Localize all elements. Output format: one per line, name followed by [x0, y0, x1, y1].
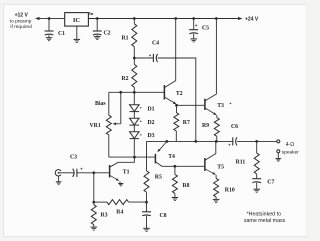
arrow +24V supply: [233, 18, 238, 20]
svg-text:R11: R11: [236, 159, 246, 165]
svg-text:C6: C6: [231, 124, 238, 130]
wire C1 node to IC: [49, 18, 65, 20]
node R1-R2-C4: [133, 57, 136, 60]
svg-text:R8: R8: [183, 183, 190, 189]
resistor R9: [216, 115, 218, 117]
svg-text:D3: D3: [148, 133, 155, 139]
svg-text:to preamp: to preamp: [10, 18, 32, 24]
node R11 tap: [255, 140, 258, 143]
transistor T1: [109, 165, 111, 178]
wire C3 to T1 base: [77, 172, 110, 174]
node T4 emitter tap: [166, 140, 169, 143]
wire +24V rail: [88, 18, 237, 20]
ground T1 emitter: [119, 181, 121, 183]
svg-text:D2: D2: [148, 120, 155, 126]
svg-text:C2: C2: [104, 30, 111, 36]
svg-text:C4: C4: [152, 40, 159, 46]
transistor T4: [154, 154, 156, 164]
ground under R3: [91, 226, 98, 228]
wire bias chain to T4 base: [109, 156, 156, 158]
capacitor C7: [252, 178, 261, 180]
svg-text:VR1: VR1: [90, 123, 101, 129]
svg-text:Bias: Bias: [95, 101, 106, 107]
resistor R5 feedback: [146, 141, 148, 170]
wire output rail: [147, 140, 233, 142]
ground under C8: [143, 227, 150, 229]
wire arrow to C1 node: [41, 18, 50, 20]
wire C4 feed: [134, 57, 153, 59]
resistor R1: [133, 19, 135, 24]
wire T2 emitter to T3 base: [177, 104, 205, 106]
node C2 tap: [96, 17, 99, 20]
wire input node to R3: [93, 173, 95, 202]
node C4 return tap: [194, 140, 197, 143]
wire C6 to speaker: [237, 140, 277, 142]
node diode bottom / T1 collector: [133, 156, 136, 159]
wiper arrow VR1: [120, 92, 122, 124]
svg-text:+24 V: +24 V: [245, 16, 259, 22]
resistor R4: [94, 201, 107, 203]
svg-text:R2: R2: [122, 76, 129, 82]
capacitor C2: [96, 19, 98, 31]
node R2 bottom / bias: [133, 91, 136, 94]
svg-text:D1: D1: [148, 106, 155, 112]
resistor R8: [174, 166, 176, 174]
speaker terminal +: [277, 140, 280, 143]
svg-text:IC: IC: [73, 17, 81, 24]
svg-text:T2: T2: [176, 91, 183, 97]
svg-text:R1: R1: [122, 36, 129, 42]
svg-text:C3: C3: [70, 155, 77, 161]
diode D2: [130, 118, 140, 125]
transistor T5: [204, 158, 206, 171]
potentiometer VR1: [108, 92, 110, 115]
node C1 tap: [48, 17, 51, 20]
capacitor C1: [48, 19, 50, 31]
node T1 base / R3 tap: [92, 171, 95, 174]
arrow +12V output to preamp: [40, 18, 42, 20]
speaker terminal return: [277, 150, 280, 153]
node T2 emitter: [175, 104, 178, 107]
svg-text:T3: T3: [217, 103, 224, 109]
diode D3: [130, 132, 140, 139]
svg-text:R5: R5: [155, 174, 162, 180]
ground under C7: [253, 188, 260, 190]
ground under R10: [213, 198, 220, 200]
ground under C5: [190, 38, 197, 40]
wire IC ground lead: [76, 26, 78, 39]
ground under IC: [74, 38, 81, 40]
wire T4 collector to T5 base: [175, 165, 205, 167]
svg-text:T1: T1: [123, 169, 130, 175]
node T3 emitter / T5 collector tap: [215, 140, 218, 143]
svg-text:R4: R4: [116, 209, 123, 215]
node R3-R4: [92, 201, 95, 204]
svg-text:if required: if required: [10, 24, 32, 30]
svg-text:R3: R3: [101, 212, 108, 218]
svg-text:same metal mass: same metal mass: [244, 218, 286, 224]
svg-text:R10: R10: [225, 188, 235, 194]
ground under C2: [94, 36, 101, 38]
svg-text:*: *: [230, 102, 232, 108]
svg-text:C5: C5: [202, 26, 209, 32]
svg-text:4-Ω: 4-Ω: [286, 142, 295, 148]
node T3 collector tap: [215, 17, 218, 20]
wire C4 to output rail: [158, 58, 196, 141]
resistor R3: [93, 202, 95, 205]
diode D1: [133, 92, 135, 104]
input connector J1: [55, 170, 61, 176]
resistor R2: [133, 58, 135, 64]
resistor R7: [176, 105, 178, 112]
resistor R11: [256, 141, 258, 153]
svg-text:R7: R7: [183, 120, 190, 126]
wire input to C3: [59, 172, 74, 174]
capacitor C8: [146, 202, 148, 212]
resistor R10: [215, 175, 217, 179]
ground under input connector: [58, 176, 60, 182]
svg-text:T4: T4: [168, 154, 175, 160]
node C5 tap: [192, 17, 195, 20]
transistor T2: [163, 85, 165, 100]
svg-text:In: In: [89, 11, 94, 16]
svg-text:C8: C8: [160, 213, 167, 219]
svg-text:C7: C7: [267, 180, 274, 186]
svg-text:T5: T5: [217, 165, 224, 171]
node T4 collector / T5 base: [174, 165, 177, 168]
svg-text:C1: C1: [58, 31, 65, 37]
svg-text:speaker: speaker: [282, 149, 299, 155]
node T2 collector tap: [174, 17, 177, 20]
wire bias rail: [109, 91, 165, 93]
svg-text:*Heatsinked to: *Heatsinked to: [247, 212, 282, 218]
ground under speaker return: [277, 153, 279, 159]
ground under C1: [46, 37, 53, 39]
svg-text:+12 V: +12 V: [15, 12, 29, 18]
node R1 tap: [133, 17, 136, 20]
capacitor C3: [76, 169, 78, 177]
node VR1 wiper tap: [119, 91, 122, 94]
capacitor C5: [193, 19, 195, 30]
transistor T3: [204, 99, 206, 110]
node R4-R5-C8: [145, 201, 148, 204]
svg-text:R9: R9: [202, 123, 209, 129]
regulator IC: [65, 13, 89, 27]
ground under R8: [172, 197, 179, 199]
